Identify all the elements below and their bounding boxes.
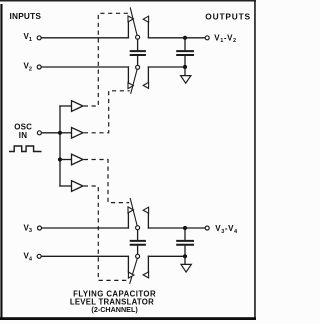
wire bus to inverter U4 [60, 185, 72, 187]
wire S3 right contact to output node V3-V4 [148, 227, 205, 229]
switch S4 right contact [147, 256, 149, 271]
wire V4 input to switch S4 left contact [42, 255, 129, 257]
wire OSC to inverter bus [42, 132, 60, 134]
svg-text:(2-CHANNEL): (2-CHANNEL) [91, 305, 138, 314]
wire V1 input to switch S1 left contact [42, 37, 129, 39]
wire V3 input to switch S3 left contact [42, 227, 129, 229]
switch S1 right contact [147, 22, 149, 38]
wire bus to inverter U2 [60, 132, 72, 134]
wire C2 to lower junction [184, 56, 186, 67]
switch S4 left contact [127, 256, 129, 272]
wire S1 right contact to output node V1-V2 [148, 37, 205, 39]
wire S1 pole to capacitor C1 [137, 39, 139, 50]
switch S4 arm [130, 258, 138, 283]
node V1-V2 output terminal [205, 36, 209, 40]
svg-text:OUTPUTS: OUTPUTS [205, 12, 251, 22]
inverter U2 [72, 128, 84, 139]
svg-text:V1-V2: V1-V2 [214, 33, 236, 44]
wire bus to inverter U1 [60, 105, 72, 107]
switch S1 arm [130, 8, 137, 35]
wire V2 input to switch S2 left contact [42, 66, 129, 68]
switch S1 pole [136, 35, 140, 39]
switch S3 right contact [147, 213, 149, 228]
svg-text:V2: V2 [24, 62, 32, 73]
control net U1 to S1 arm (dashed) [84, 13, 130, 106]
svg-text:V4: V4 [24, 252, 33, 263]
junction bus at inverter U3 [58, 157, 62, 161]
svg-text:V3-V4: V3-V4 [215, 224, 238, 235]
svg-text:IN: IN [19, 131, 27, 140]
junction top of C4 [183, 226, 187, 230]
junction top of C2 [183, 36, 187, 40]
capacitor C2 output hold [177, 51, 193, 55]
switch S2 arm [131, 69, 137, 93]
switch S2 left contact [127, 67, 129, 83]
clock waveform symbol [10, 146, 41, 152]
switch S2 pole [136, 65, 140, 69]
wire C4 to lower junction [184, 246, 186, 257]
switch S3 pole [136, 226, 140, 230]
capacitor C4 output hold [177, 241, 193, 245]
node OSC IN terminal [37, 131, 41, 135]
inverter U3 [72, 154, 84, 165]
node V2 terminal [37, 65, 41, 69]
wire bus to inverter U3 [60, 159, 72, 161]
wire capacitor C3 to S4 pole [137, 246, 139, 255]
switch S1 left contact [127, 22, 129, 38]
control net U3 to S3 arm (dashed) [84, 160, 129, 203]
node V3-V4 output terminal [205, 226, 209, 230]
junction bottom of C4 [183, 254, 187, 258]
ground G1 [181, 76, 191, 84]
wire S2 right contact to capacitor C2 [148, 66, 185, 68]
node V4 terminal [37, 254, 41, 258]
border left bar [0, 4, 2, 319]
capacitor C1 flying [131, 51, 145, 55]
node V1 terminal [37, 36, 41, 40]
svg-text:V3: V3 [24, 223, 32, 234]
switch S4 pole [136, 254, 140, 258]
wire junction to ground G1 [184, 67, 186, 76]
switch S3 arm [130, 199, 137, 226]
border right line [254, 1, 256, 319]
control net U2 to S2 arm (dashed) [84, 91, 130, 133]
node V3 terminal [38, 226, 42, 230]
svg-text:V1: V1 [24, 32, 32, 43]
capacitor C3 flying [131, 241, 145, 245]
ground G2 [181, 264, 191, 272]
border bottom bar [0, 317, 256, 320]
junction bus at OSC [58, 131, 62, 135]
junction bottom of C2 [183, 65, 187, 69]
inverter U1 [72, 101, 84, 112]
switch S2 right contact [147, 67, 149, 82]
border top bar [0, 0, 256, 2]
inverter bus vertical [59, 106, 61, 186]
svg-text:INPUTS: INPUTS [10, 11, 42, 21]
switch S3 left contact [127, 213, 129, 228]
wire S4 right contact to capacitor C4 [148, 255, 185, 257]
wire junction to ground G2 [184, 256, 186, 264]
wire junction to C2 [184, 38, 186, 50]
inverter U4 [72, 181, 84, 192]
wire S3 pole to capacitor C3 [137, 230, 139, 240]
wire capacitor C1 to S2 pole [137, 56, 139, 65]
control net U4 to S4 arm (dashed) [84, 186, 129, 280]
wire junction to C4 [184, 228, 186, 240]
